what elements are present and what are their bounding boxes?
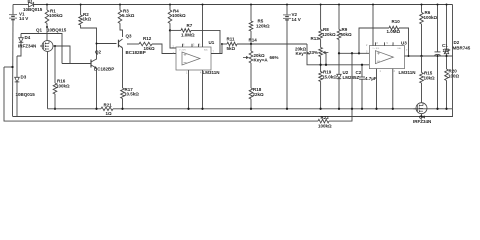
junction R6 top: [421, 4, 423, 6]
junction R16 top: [54, 45, 56, 47]
wire sense riser: [351, 53, 353, 109]
svg-text:15.0kΩ: 15.0kΩ: [322, 74, 337, 79]
wire Q4 gate: [414, 108, 418, 110]
svg-text:R22: R22: [321, 115, 330, 120]
svg-text:R21: R21: [104, 102, 113, 107]
junction V2 top: [286, 4, 288, 6]
resistor R3: [118, 5, 135, 38]
svg-text:Q3: Q3: [126, 33, 133, 38]
resistor R17: [121, 87, 140, 109]
junction R20 bottom: [445, 108, 447, 110]
voltage ref U2: [337, 70, 360, 109]
pin numbers U1: [173, 43, 215, 74]
svg-text:66%: 66%: [270, 55, 279, 60]
wire mid bottom bus: [48, 108, 453, 110]
svg-text:LM311N: LM311N: [399, 70, 416, 75]
transistor Q1: [36, 28, 67, 52]
wire R12 to U1: [152, 44, 176, 54]
wire U3 pin bal: [392, 69, 394, 109]
resistor R9: [337, 5, 352, 75]
capacitor C2: [356, 65, 377, 109]
junction V2 bottom: [286, 108, 288, 110]
wire Q1 source net: [53, 46, 91, 64]
svg-text:120kΩ: 120kΩ: [322, 32, 336, 37]
junction C1 top: [437, 4, 439, 6]
wire inner bottom bus: [13, 109, 453, 117]
svg-text:R12: R12: [143, 36, 152, 41]
resistor R18: [249, 87, 264, 109]
wire Q1 gate stub: [40, 45, 44, 47]
resistor R10: [359, 19, 409, 56]
resistor R11: [222, 37, 307, 52]
svg-text:IRFZ34N: IRFZ34N: [413, 119, 431, 124]
resistor R6: [420, 5, 438, 57]
svg-text:4.7µF: 4.7µF: [365, 76, 377, 81]
wire outer loop: [4, 67, 352, 121]
svg-text:50kΩ: 50kΩ: [341, 32, 353, 37]
svg-text:R7: R7: [187, 23, 193, 28]
transistor Q2: [91, 50, 114, 72]
svg-text:Q1: Q1: [36, 28, 43, 33]
diode D2: [444, 5, 471, 57]
junction C1 bottom: [436, 108, 438, 110]
svg-text:D3: D3: [21, 74, 27, 79]
svg-text:Key=A: Key=A: [254, 58, 269, 63]
wire gate line: [21, 34, 62, 64]
junction R5 top: [250, 4, 252, 6]
junction D2 top: [446, 4, 448, 6]
junction R2 top: [80, 4, 82, 6]
svg-text:14 V: 14 V: [19, 16, 28, 21]
wire U1 pin gnd: [188, 70, 190, 109]
junction R13-R19: [319, 64, 321, 66]
wire U3 input line: [339, 52, 369, 54]
junction R13 wiper: [325, 64, 327, 66]
label Q1 value: [18, 44, 36, 49]
wire Q2 emitter: [96, 68, 98, 109]
wire U3 top stubs: [376, 42, 394, 45]
junction U3 in r9: [338, 52, 340, 54]
svg-text:5kΩ: 5kΩ: [227, 46, 236, 51]
junction U1 out node: [221, 43, 223, 45]
wire Q2 collector: [96, 57, 98, 60]
svg-text:MBR745: MBR745: [453, 45, 471, 50]
svg-text:10BQ015: 10BQ015: [16, 92, 36, 97]
diode D4: [17, 34, 31, 57]
wire U1 vplus: [202, 5, 204, 48]
junction R9 top: [338, 4, 340, 6]
junction R4-R7 node: [169, 29, 171, 31]
resistor R19: [319, 70, 337, 109]
junction Q2 emitter: [95, 108, 97, 110]
junction U3 pin bal: [392, 108, 394, 110]
resistor R22: [318, 115, 332, 129]
svg-text:100Ω: 100Ω: [448, 73, 460, 78]
svg-text:D4: D4: [25, 35, 31, 40]
junction D2 bottom: [446, 55, 448, 57]
resistor R1: [45, 5, 63, 41]
junction R6 bottom: [420, 55, 422, 57]
junction R18 bottom: [250, 108, 252, 110]
svg-text:LM311N: LM311N: [203, 70, 220, 75]
svg-text:10.5kΩ: 10.5kΩ: [124, 92, 139, 97]
junction R8 top: [320, 4, 322, 6]
wire Q1 bottom column: [47, 52, 49, 109]
wire right edge: [452, 5, 454, 109]
resistor R15: [420, 56, 435, 103]
junction U3 in a: [351, 52, 353, 54]
wire U3 vplus: [372, 5, 374, 46]
svg-text:1Ω: 1Ω: [106, 111, 113, 116]
resistor R4: [168, 5, 186, 49]
svg-text:R14: R14: [249, 38, 258, 43]
wire U1 output: [211, 44, 222, 54]
junction sense riser bus: [351, 108, 353, 110]
junction R4 top: [169, 4, 171, 6]
svg-text:120kΩ: 120kΩ: [256, 23, 270, 28]
svg-text:10kΩ: 10kΩ: [144, 46, 156, 51]
capacitor C1: [435, 5, 451, 109]
junction R16 bottom: [54, 108, 56, 110]
svg-text:1.0MΩ: 1.0MΩ: [387, 29, 401, 34]
resistor R21: [101, 102, 113, 116]
label D1 value: [23, 7, 43, 12]
resistor R16: [53, 46, 70, 109]
svg-text:1kΩ: 1kΩ: [83, 16, 92, 21]
svg-text:D1: D1: [28, 0, 34, 3]
svg-text:V+ B/S: V+ B/S: [372, 48, 379, 50]
resistor R7: [170, 23, 220, 53]
svg-text:R11: R11: [227, 37, 236, 42]
potentiometer R13: [295, 36, 328, 72]
diode D1: [28, 0, 34, 7]
resistor R20: [445, 56, 460, 109]
svg-text:10kΩ: 10kΩ: [424, 76, 436, 81]
junction R1 top: [46, 4, 48, 6]
svg-text:V+ B/S: V+ B/S: [179, 49, 186, 51]
svg-text:U1: U1: [209, 40, 215, 45]
wire U3 output: [405, 55, 453, 57]
op-amp U1: [176, 40, 220, 75]
svg-text:R13: R13: [311, 36, 320, 41]
wire out jog: [307, 44, 369, 65]
pin numbers U3: [366, 42, 408, 73]
wire R12 line: [127, 43, 139, 45]
junction R20 top: [446, 55, 448, 57]
diode D3: [15, 56, 36, 117]
svg-text:BC182BP: BC182BP: [94, 66, 114, 71]
svg-text:C2: C2: [356, 70, 362, 75]
potentiometer R14: [243, 38, 279, 88]
junction C2 top: [361, 64, 363, 66]
svg-text:5.1kΩ: 5.1kΩ: [122, 13, 135, 18]
junction U3 in b: [358, 52, 360, 54]
svg-text:IRFZ34N: IRFZ34N: [18, 44, 36, 49]
wire U1 pin bal: [202, 70, 204, 109]
transistor Q4: [413, 103, 431, 124]
junction Q2 coll node: [96, 43, 98, 45]
svg-text:LM285Z: LM285Z: [343, 75, 360, 80]
svg-text:U3: U3: [401, 40, 407, 45]
junction R19 bottom: [319, 108, 321, 110]
svg-text:100kΩ: 100kΩ: [49, 13, 63, 18]
svg-text:100kΩ: 100kΩ: [56, 84, 70, 89]
transistor Q3: [119, 33, 146, 55]
junction U3 pin gnd: [375, 108, 377, 110]
wire U3 pin gnd: [376, 69, 378, 109]
resistor R12: [139, 36, 155, 51]
junction R5 bottom: [250, 43, 252, 45]
junction outer-battery: [11, 66, 13, 68]
junction U3 vplus top: [372, 4, 374, 6]
junction Q4 source: [420, 115, 422, 117]
svg-text:1.0MΩ: 1.0MΩ: [181, 32, 195, 37]
resistor R8: [319, 5, 336, 48]
op-amp U3: [369, 40, 415, 75]
junction C2 bottom: [361, 108, 363, 110]
svg-text:22kΩ: 22kΩ: [253, 92, 265, 97]
wire top bus: [13, 4, 453, 6]
resistor R2: [79, 5, 97, 57]
resistor R5: [249, 5, 270, 45]
junction U1 vplus top: [202, 4, 204, 6]
svg-text:10BQ015: 10BQ015: [23, 7, 43, 12]
wire U1 top stubs: [183, 44, 199, 47]
svg-text:100kΩ: 100kΩ: [318, 124, 332, 129]
battery V2: [283, 5, 301, 109]
junction U1 pin bal: [201, 108, 203, 110]
battery V1: [9, 5, 28, 117]
wire Q4 source: [421, 114, 423, 117]
wire Q3 emitter: [122, 48, 124, 88]
junction U2 bottom: [338, 108, 340, 110]
svg-text:100kΩ: 100kΩ: [172, 13, 186, 18]
svg-text:14 V: 14 V: [292, 17, 301, 22]
junction drain node: [46, 26, 48, 28]
junction U1 pin gnd: [187, 108, 189, 110]
junction R10 out: [408, 55, 410, 57]
svg-text:10BQ015: 10BQ015: [47, 28, 67, 33]
wire Q2-Q3 link: [97, 43, 117, 45]
junction R3 top: [119, 4, 121, 6]
junction R17 bottom: [121, 108, 123, 110]
junction C1 out: [437, 55, 439, 57]
svg-text:100kΩ: 100kΩ: [424, 15, 438, 20]
svg-text:R10: R10: [392, 19, 401, 24]
svg-text:23%: 23%: [309, 50, 318, 55]
svg-text:Q2: Q2: [95, 50, 102, 55]
